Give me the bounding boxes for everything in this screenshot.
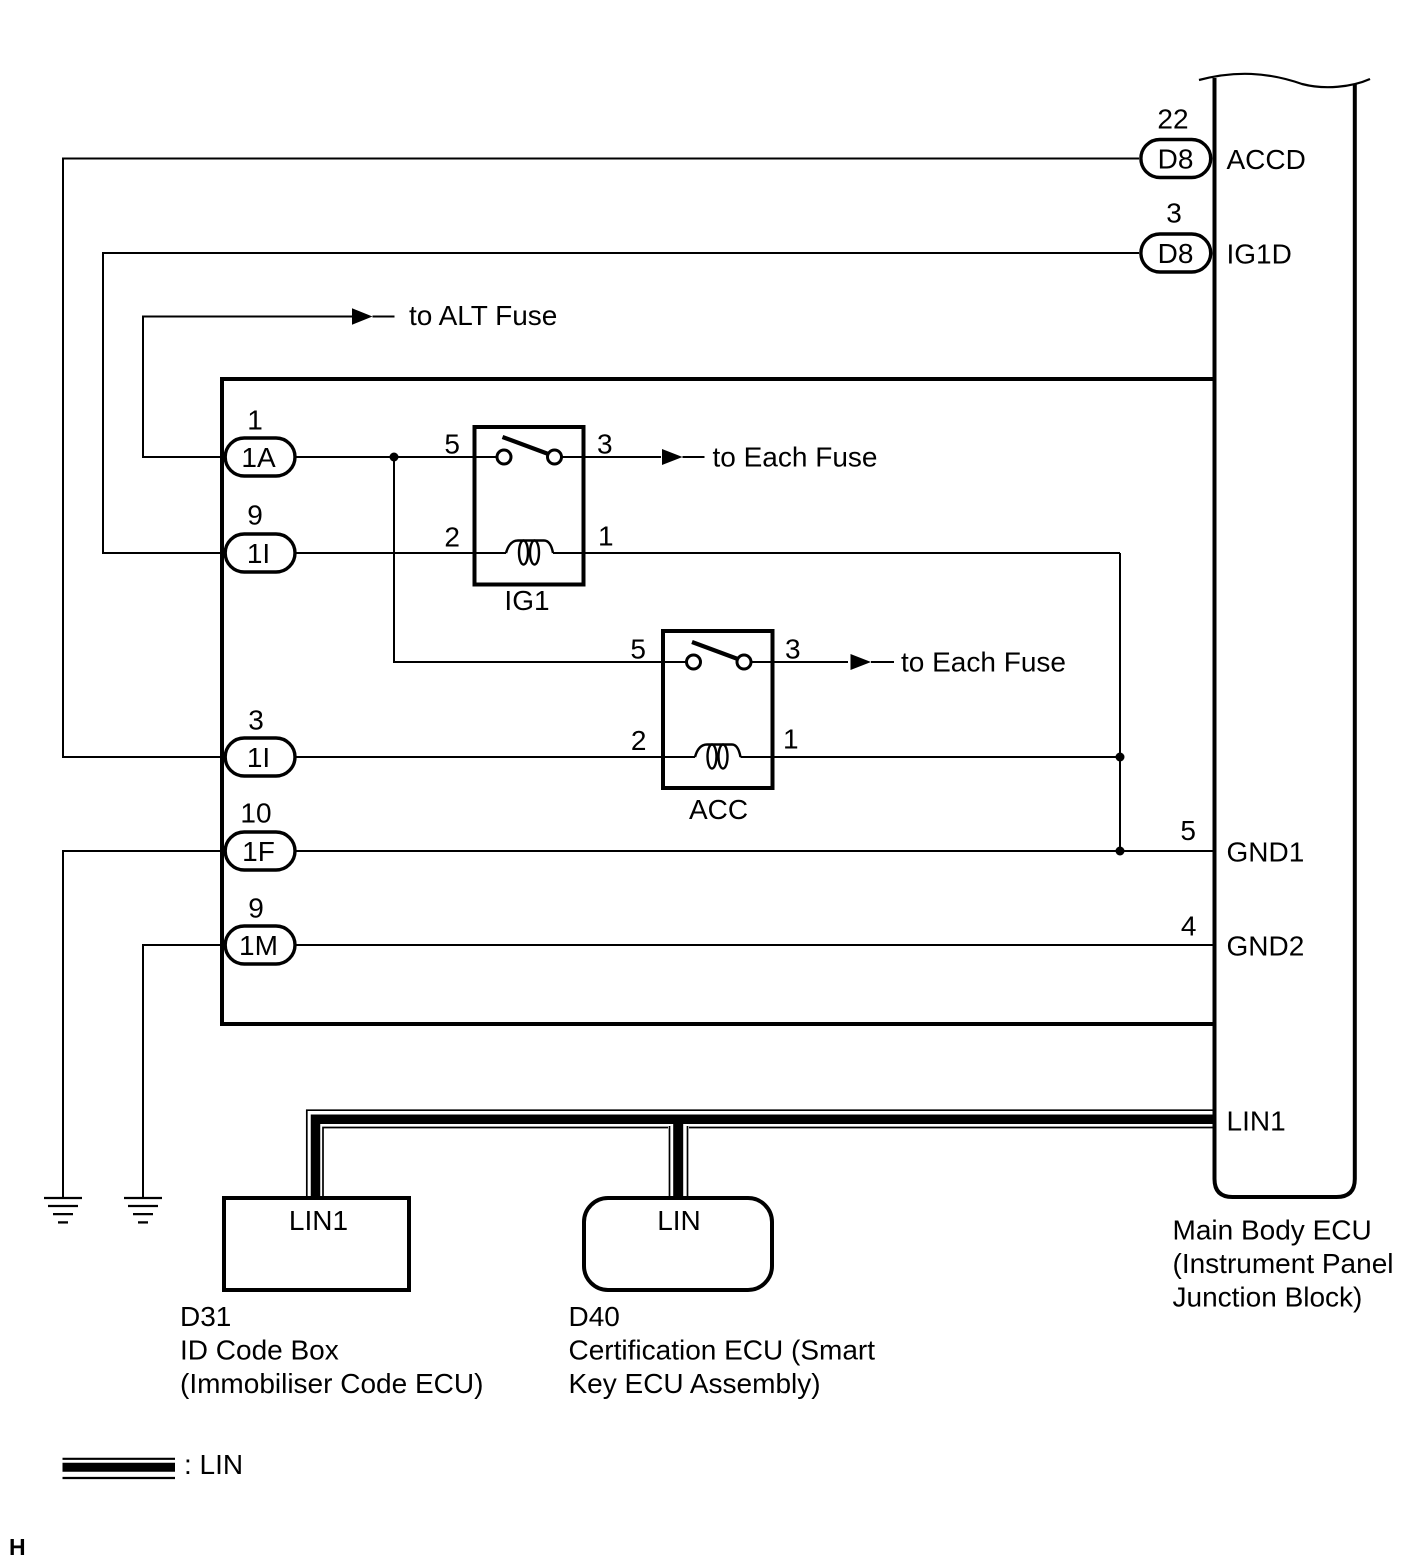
wire branch node to ACC relay pin 5 — [394, 457, 663, 662]
svg-text:3: 3 — [597, 429, 613, 460]
svg-text:Certification ECU (Smart: Certification ECU (Smart — [569, 1335, 876, 1366]
svg-text:LIN: LIN — [657, 1205, 701, 1236]
relay IG1 switch blade — [503, 437, 552, 455]
svg-text:10: 10 — [240, 798, 271, 829]
svg-text:LIN1: LIN1 — [1227, 1106, 1286, 1137]
svg-text:1F: 1F — [242, 836, 275, 867]
legend LIN line sample — [63, 1449, 244, 1480]
svg-text:1I: 1I — [247, 742, 270, 773]
wire IG1 relay pin 3 out — [555, 456, 662, 458]
svg-text:Key ECU Assembly): Key ECU Assembly) — [569, 1368, 821, 1399]
svg-text:22: 22 — [1157, 104, 1188, 135]
relay IG1 coil — [506, 541, 553, 565]
label Main Body ECU — [1173, 1215, 1394, 1313]
ground symbol 1 — [44, 1198, 82, 1222]
wire GND2 — [295, 944, 1213, 946]
arrow to Each Fuse (IG1) — [662, 442, 877, 473]
svg-text:IG1D: IG1D — [1227, 239, 1292, 270]
svg-text:D8: D8 — [1158, 238, 1194, 269]
certification ECU box D40 (LIN) — [584, 1198, 772, 1290]
junction dot node B (ACC coil join) — [1116, 753, 1125, 762]
junction dot node C (GND1 join) — [1116, 847, 1125, 856]
wire 1F to ground — [63, 851, 223, 1197]
LIN bus inner thin line right segment — [689, 1127, 1213, 1129]
svg-text:1: 1 — [247, 405, 263, 436]
label D40 Certification ECU — [569, 1301, 876, 1399]
svg-text:3: 3 — [1166, 198, 1182, 229]
relay ACC coil — [695, 745, 741, 769]
svg-text:5: 5 — [444, 429, 460, 460]
LIN bus outer thin line — [307, 1110, 1213, 1196]
connector 1A pin 1 — [225, 405, 295, 477]
ground symbol 2 — [124, 1198, 162, 1222]
svg-text:Junction Block): Junction Block) — [1173, 1282, 1363, 1313]
svg-text:ID Code Box: ID Code Box — [180, 1335, 339, 1366]
wire ACC relay pin 3 out — [744, 661, 848, 663]
svg-text:9: 9 — [248, 893, 264, 924]
wire vertical IG1/ACC coil return to GND1 — [1119, 553, 1121, 851]
svg-text:GND1: GND1 — [1227, 837, 1305, 868]
connector D8 pin 22 (ACCD) — [1141, 104, 1211, 178]
svg-text:1: 1 — [783, 724, 799, 755]
svg-text:4: 4 — [1181, 911, 1197, 942]
wire IG1 coil pin 1 out — [553, 552, 1120, 554]
wire 1I pin9 to IG1 coil pin 2 — [295, 552, 506, 554]
connector 1F pin 10 — [225, 798, 295, 871]
Main Body ECU torn wavy top edge — [1199, 74, 1370, 87]
relay ACC box — [663, 631, 773, 788]
junction dot node A (1A branch) — [390, 453, 399, 462]
svg-text:3: 3 — [785, 634, 801, 665]
svg-text:3: 3 — [248, 705, 264, 736]
svg-text:Main Body ECU: Main Body ECU — [1173, 1215, 1372, 1246]
arrow to Each Fuse (ACC) — [851, 647, 1066, 678]
wire 1I pin3 to ACC coil pin 2 — [295, 756, 695, 758]
svg-text:D8: D8 — [1158, 144, 1194, 175]
relay IG1 box — [475, 427, 584, 585]
relay IG1 switch contact circles — [497, 450, 562, 464]
svg-text:1: 1 — [598, 521, 614, 552]
wire GND1 — [295, 850, 1213, 852]
label D31 ID Code Box — [180, 1301, 483, 1399]
wire 1A to IG1 relay pin 5 — [295, 456, 504, 458]
connector D8 pin 3 (IG1D) — [1141, 198, 1211, 273]
svg-text:GND2: GND2 — [1227, 931, 1305, 962]
wire ACC switch in — [663, 661, 694, 663]
LIN drop thin lines to Certification ECU — [670, 1126, 688, 1196]
svg-text:2: 2 — [631, 725, 647, 756]
svg-text:ACC: ACC — [689, 794, 748, 825]
svg-text:D31: D31 — [180, 1301, 231, 1332]
svg-text:(Immobiliser Code ECU): (Immobiliser Code ECU) — [180, 1368, 483, 1399]
svg-text:(Instrument Panel: (Instrument Panel — [1173, 1248, 1394, 1279]
connector 1I pin 9 — [225, 500, 295, 573]
LIN drop thick line to Certification ECU — [673, 1117, 683, 1196]
svg-text:1A: 1A — [241, 442, 276, 473]
svg-text:LIN1: LIN1 — [289, 1205, 348, 1236]
wire IG1D: D8 pin3 to 1I pin9 — [103, 253, 1139, 553]
Main Body ECU body outline — [1215, 78, 1355, 1197]
connector 1I pin 3 — [225, 705, 295, 777]
svg-text:D40: D40 — [569, 1301, 620, 1332]
LIN bus thick line — [316, 1119, 1214, 1196]
svg-text:to Each Fuse: to Each Fuse — [901, 647, 1066, 678]
svg-text:ACCD: ACCD — [1227, 144, 1306, 175]
connector 1M pin 9 — [225, 893, 295, 965]
svg-text:1M: 1M — [239, 930, 278, 961]
wire 1M to ground — [143, 945, 223, 1197]
svg-text:IG1: IG1 — [504, 585, 549, 616]
svg-text:to ALT Fuse: to ALT Fuse — [409, 300, 557, 331]
relay ACC switch contact circles — [687, 655, 752, 669]
svg-text:H: H — [9, 1534, 26, 1560]
wire ACCD: D8 pin22 to 1I pin3 — [63, 159, 1139, 758]
wire ACC coil pin 1 out — [741, 756, 1121, 758]
LIN bus inner thin line left segment — [323, 1128, 668, 1197]
svg-text:: LIN: : LIN — [184, 1449, 243, 1480]
relay ACC switch blade — [692, 642, 741, 660]
arrow to ALT Fuse — [352, 300, 557, 331]
junction block (Instrument Panel Junction Block) rectangle — [222, 379, 1213, 1024]
svg-text:to Each Fuse: to Each Fuse — [713, 442, 878, 473]
svg-text:1I: 1I — [247, 538, 270, 569]
ID code box D31 (LIN1) — [224, 1198, 409, 1290]
wire to ALT Fuse from 1A — [143, 317, 352, 458]
svg-text:5: 5 — [1180, 815, 1196, 846]
svg-text:9: 9 — [247, 500, 263, 531]
svg-text:5: 5 — [630, 634, 646, 665]
svg-text:2: 2 — [444, 522, 460, 553]
